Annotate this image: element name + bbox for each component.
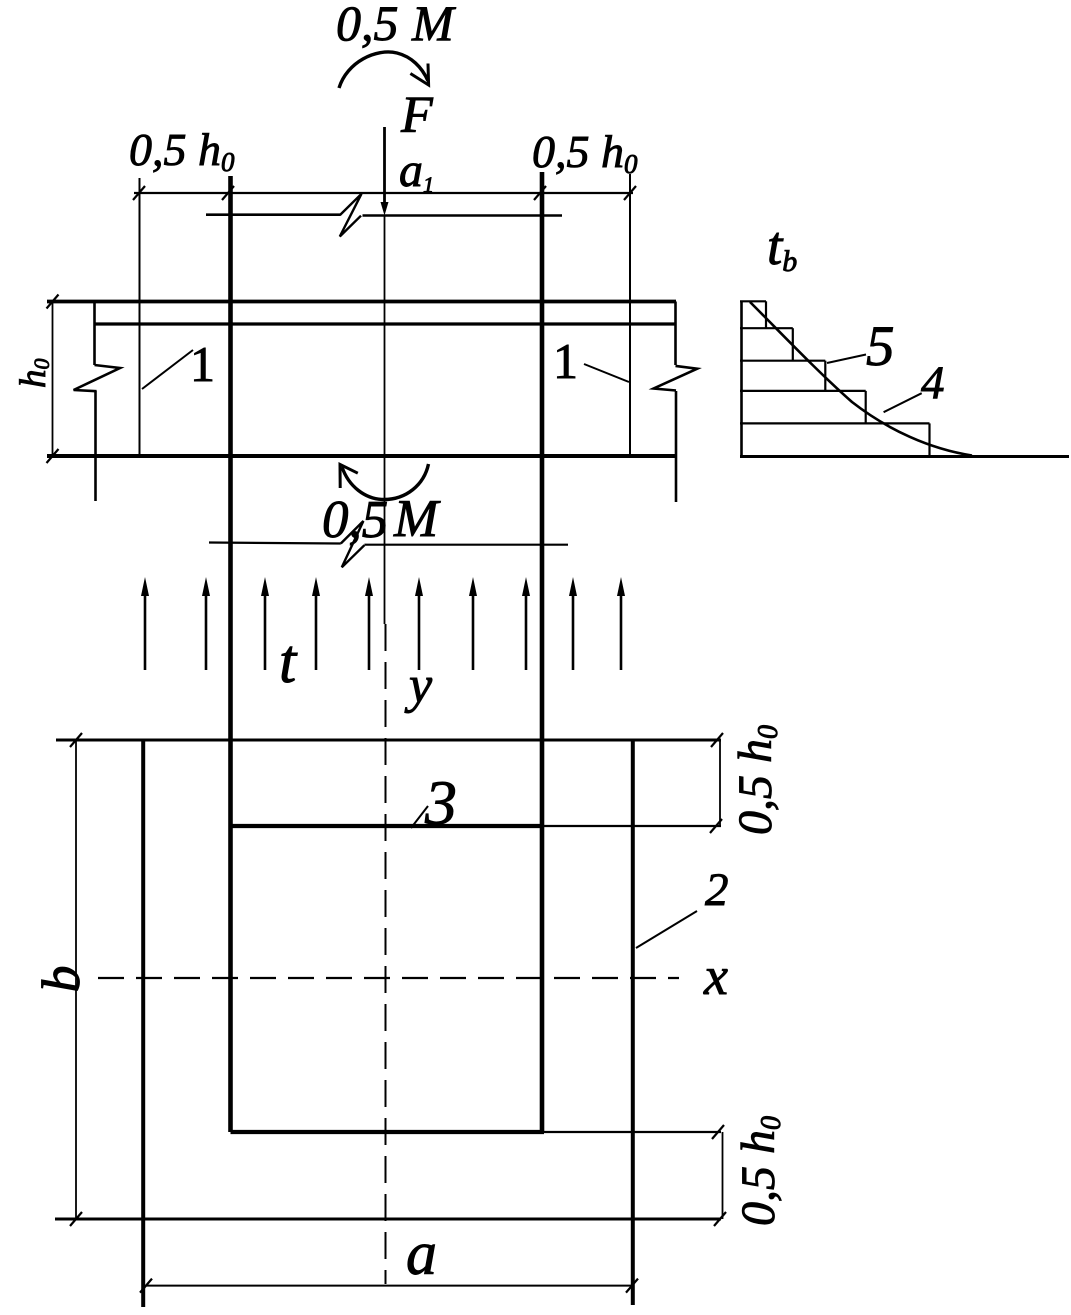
svg-text:0,5 h0: 0,5 h0: [129, 124, 235, 177]
svg-text:b: b: [31, 966, 91, 993]
svg-text:0,5 h0: 0,5 h0: [732, 1116, 787, 1226]
svg-text:F: F: [400, 87, 434, 144]
svg-text:t: t: [279, 628, 298, 696]
svg-text:3: 3: [424, 767, 457, 838]
svg-text:0,5 h0: 0,5 h0: [532, 126, 638, 179]
svg-text:1: 1: [190, 336, 215, 392]
svg-text:M: M: [411, 0, 456, 51]
svg-text:0,5 h0: 0,5 h0: [729, 725, 784, 835]
svg-text:5: 5: [866, 315, 895, 378]
svg-text:1: 1: [553, 333, 578, 389]
svg-text:M: M: [393, 490, 441, 548]
svg-text:4: 4: [921, 357, 945, 409]
svg-text:0,5: 0,5: [322, 491, 388, 549]
svg-text:a: a: [406, 1220, 437, 1288]
svg-text:0,5: 0,5: [336, 0, 399, 51]
svg-text:y: y: [404, 657, 433, 714]
svg-text:x: x: [703, 946, 728, 1006]
svg-text:2: 2: [705, 864, 729, 916]
